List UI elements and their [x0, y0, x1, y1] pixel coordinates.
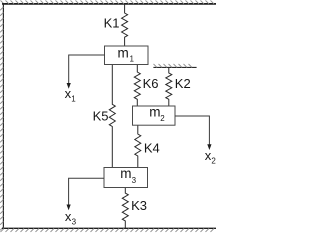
spring K4 [135, 125, 160, 167]
ceiling fixed support (top) [1, 0, 217, 4]
svg-text:m: m [118, 45, 129, 60]
svg-text:1: 1 [130, 55, 135, 64]
wire m2 right + displacement arrow x2 [175, 116, 216, 166]
spring K2 [166, 68, 191, 107]
svg-text:K6: K6 [143, 76, 159, 91]
svg-text:K2: K2 [175, 76, 191, 91]
spring K1 [104, 4, 128, 46]
wall fixed support (left) [0, 3, 3, 230]
svg-text:3: 3 [132, 176, 137, 185]
svg-text:K1: K1 [104, 16, 120, 31]
svg-text:3: 3 [72, 217, 77, 226]
svg-text:K3: K3 [131, 198, 147, 213]
floor fixed support (bottom) [1, 228, 217, 232]
wire m3 left + displacement arrow x3 [65, 178, 104, 226]
svg-text:K4: K4 [144, 140, 160, 155]
mass m1 [105, 45, 149, 64]
mass m3 [104, 166, 148, 187]
svg-text:m: m [149, 104, 160, 119]
mid ceiling fixed support (for K2) [153, 64, 196, 68]
spring K6 [134, 65, 158, 107]
svg-text:2: 2 [160, 114, 165, 123]
svg-text:m: m [120, 166, 131, 181]
wire m1 left + displacement arrow x1 [65, 55, 105, 103]
svg-text:1: 1 [71, 94, 76, 103]
spring K5 [93, 65, 116, 168]
mass m2 [133, 104, 176, 125]
svg-text:2: 2 [211, 157, 216, 166]
svg-text:K5: K5 [93, 108, 109, 123]
spring K3 [122, 188, 147, 229]
